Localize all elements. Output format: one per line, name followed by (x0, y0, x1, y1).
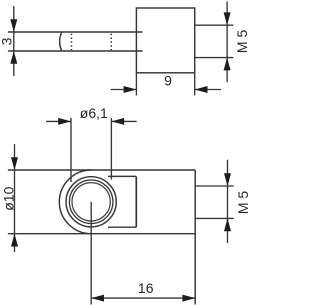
plan view centerline / 16-dim left extension (90, 202, 92, 305)
dim 3: dimension line (13, 6, 15, 76)
plan view: slot bottom edge (108, 226, 136, 228)
dim M5 bottom: lower arrowhead (up) (224, 218, 231, 231)
dim o6.1: right dimension line segment (111, 120, 136, 122)
dim 3: bottom arrowhead (up) (10, 51, 17, 64)
dim M5 bottom: upper extension line (195, 185, 234, 187)
plan view: o10 round end semicircle (59, 170, 91, 234)
dim 9: right arrowhead (left) (195, 86, 208, 93)
dim 9: left arrowhead (right) (124, 86, 137, 93)
svg-text:16: 16 (138, 280, 154, 296)
side view: plate bottom edge line (8, 50, 143, 52)
dim 9: right extension (block right edge ext) (194, 73, 196, 96)
plan view: bearing outer ring circle (66, 177, 116, 227)
side view: block rectangle (136, 8, 194, 73)
dim M5 top: lower extension line (195, 57, 234, 59)
dim M5 top: dimension line (226, 2, 228, 83)
dim M5 top: lower arrowhead (up) (224, 58, 231, 71)
dim o10: dimension line (14, 144, 16, 252)
dim 16: dimension line (91, 297, 195, 299)
plan view: slot right edge (135, 176, 137, 227)
dim 9: left extension (block left edge ext) (135, 73, 137, 96)
dim o6.1: left arrowhead (right) (58, 118, 71, 125)
plan view: body right edge + 16-dim extension (194, 170, 196, 305)
dim M5 bottom: lower extension line (195, 217, 234, 219)
dim M5 top: upper arrowhead (down) (224, 12, 231, 25)
dim o6.1: left dimension line segment (46, 120, 71, 122)
plan view: hole circle o6.1 (72, 183, 110, 221)
side view: round-end silhouette arc (60, 32, 62, 51)
svg-text:M 5: M 5 (235, 191, 250, 215)
dim o6.1: right extension line (110, 118, 112, 180)
side view: plate top edge line (8, 31, 143, 33)
dim 16: left arrowhead (left) (91, 295, 104, 302)
plan view: body bottom edge with o10 dim extension (8, 233, 195, 235)
svg-text:ø6,1: ø6,1 (80, 105, 108, 121)
dim 9: right dimension line segment (195, 89, 221, 91)
hidden line of hole, left (71, 34, 73, 50)
hidden line of hole, right (110, 34, 112, 50)
plan view: bearing inner ring circle (69, 180, 113, 224)
dim o10: upper arrowhead (down) (11, 157, 18, 170)
dim o6.1: right arrowhead (left) (111, 118, 124, 125)
dim 16: right arrowhead (right) (182, 295, 195, 302)
dim M5 top: upper extension line (195, 24, 234, 26)
svg-text:ø10: ø10 (1, 186, 17, 210)
svg-text:9: 9 (164, 73, 172, 89)
dim 9: left dimension line segment (111, 89, 137, 91)
dim M5 bottom: dimension line (227, 160, 229, 243)
dim o10: lower arrowhead (up) (11, 234, 18, 247)
dim M5 bottom: upper arrowhead (down) (224, 173, 231, 186)
svg-text:M 5: M 5 (234, 30, 250, 54)
plan view: slot top edge (108, 175, 136, 177)
dim o6.1: left extension line (70, 118, 72, 182)
plan view: body top edge with o10 dim extension (8, 169, 195, 171)
svg-text:3: 3 (0, 37, 15, 45)
dim 3: top arrowhead (down) (10, 19, 17, 32)
